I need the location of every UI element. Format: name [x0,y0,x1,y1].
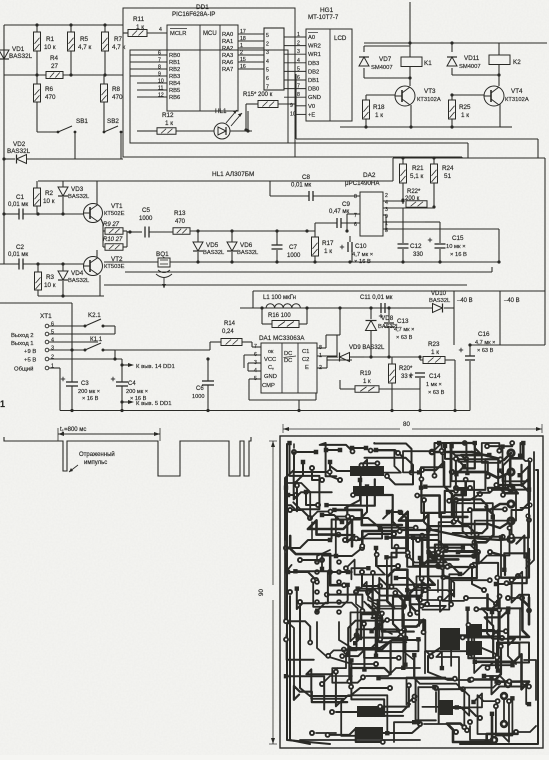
PCB pad [509,440,515,446]
PCB pad [377,583,383,589]
PCB pad [419,603,425,609]
svg-text:4,7 мк ×: 4,7 мк × [394,327,414,333]
svg-text:RB2: RB2 [169,67,180,73]
PCB pad [413,583,419,589]
svg-text:E: E [305,365,309,371]
PCB pad [307,640,313,646]
wire pin RA7 [238,68,264,70]
PCB square pad [460,490,464,494]
svg-text:200 мк ×: 200 мк × [126,389,148,395]
svg-text:C8: C8 [302,174,311,181]
PCB trace [366,668,420,676]
svg-text:10: 10 [290,111,296,117]
PCB trace [376,548,398,566]
PCB trace [425,631,506,673]
PCB pad [445,564,451,570]
wire to DD1 pin14 [122,364,128,366]
PCB square pad [320,567,324,571]
PCB trace [423,566,472,609]
PCB square pad [374,448,379,453]
PCB trace [453,708,476,716]
relay K2 [489,55,510,65]
PCB trace [330,571,348,573]
PCB pad [353,536,359,542]
PCB trace [503,700,505,720]
wire bottom section border [253,290,545,292]
PCB pad [448,601,454,607]
PCB square pad [324,503,328,507]
PCB pad [359,569,365,575]
svg-text:C2: C2 [16,244,25,251]
PCB pad [346,678,352,684]
svg-text:A0: A0 [308,35,315,41]
PCB square pad [412,720,416,724]
PCB pad [467,507,473,513]
PCB pad [401,627,407,633]
PCB pad [435,550,441,556]
PCB trace [289,596,291,700]
PCB trace [497,443,524,493]
PCB square pad [338,448,343,453]
svg-text:RA2: RA2 [222,46,233,52]
PCB square pad [506,606,510,610]
PCB trace [466,598,496,604]
PCB pad [502,506,508,512]
PCB trace [387,547,397,558]
svg-text:DC: DC [284,351,292,357]
svg-text:2: 2 [385,193,388,199]
PCB trace [404,640,414,676]
PCB square pad [366,566,370,570]
PCB trace [487,443,512,446]
svg-text:XT1: XT1 [40,313,52,320]
svg-text:R14: R14 [224,321,236,327]
capacitor C3 [61,378,65,380]
svg-text:330: 330 [413,252,424,258]
PCB pad [494,655,500,661]
PCB pad [506,534,515,543]
diode VD3 [58,187,68,196]
PCB pad [472,539,478,545]
PCB pad [490,736,498,744]
PCB pad [333,669,339,675]
PCB trace [356,592,364,610]
PCB trace [482,648,496,668]
PCB trace [322,517,348,569]
PCB trace [460,470,538,744]
wire pin RB1 [130,61,167,63]
PCB trace [300,606,310,696]
PCB trace [463,630,498,671]
svg-text:9: 9 [158,72,161,78]
svg-text:RB1: RB1 [169,60,180,66]
svg-text:R23: R23 [428,341,440,348]
svg-text:5,1 к: 5,1 к [410,173,424,180]
diode VD5 [193,242,203,251]
svg-text:SB2: SB2 [107,118,119,125]
PCB pad [460,635,466,641]
PCB square pad [378,526,383,531]
svg-text:C14: C14 [429,373,441,380]
wire DA1 pin5 [249,378,261,380]
svg-text:6: 6 [297,75,300,81]
svg-text:R5: R5 [80,36,89,43]
resistor R25 [452,94,484,96]
svg-text:27: 27 [51,63,59,70]
PCB pad [397,528,403,534]
svg-text:K2.1: K2.1 [88,312,101,319]
PCB pad [287,507,293,513]
PCB trace [300,739,420,741]
PCB pad [453,485,459,491]
svg-text:DA1 MC33063A: DA1 MC33063A [259,335,305,342]
svg-text:1 к: 1 к [431,349,439,356]
PCB pad [500,492,506,498]
wire XT1 pin6 [49,325,85,327]
wire mid ground rail [125,271,492,273]
PCB trace [407,678,446,705]
PCB pad [319,477,325,483]
PCB square pad [365,484,369,488]
PCB trace [290,510,310,518]
PCB pad [387,685,393,691]
svg-text:импульс: импульс [84,460,107,466]
svg-text:4,7 к: 4,7 к [78,44,92,51]
PCB trace [492,678,530,695]
PCB component fill [440,628,460,650]
PCB trace [524,660,536,700]
svg-text:GND: GND [308,95,321,101]
svg-text:0,24: 0,24 [222,329,234,335]
PCB trace [482,443,501,463]
PCB trace [387,620,431,656]
svg-text:2: 2 [240,50,243,56]
waveform pulse train [4,437,251,476]
PCB square pad [527,487,531,491]
PCB pad [446,563,452,569]
PCB trace [488,595,500,610]
PCB trace [387,538,435,613]
PCB pad [484,443,490,449]
PCB square pad [386,510,391,515]
svg-text:7: 7 [297,84,300,90]
PCB pad [395,450,401,456]
PCB trace [427,526,476,548]
svg-text:КТ3102А: КТ3102А [417,97,441,103]
PCB pad [419,476,425,482]
PCB pad [365,589,371,595]
PCB trace [358,560,387,600]
PCB pad [499,635,505,641]
wire mid top rail [38,180,393,182]
PCB trace [437,580,439,592]
svg-text:R6: R6 [45,86,54,93]
svg-text:6: 6 [158,51,161,57]
PCB trace [290,700,310,744]
svg-text:C2: C2 [302,357,309,363]
PCB trace [424,500,432,530]
PCB square pad [385,731,389,735]
wire supply rail [240,307,432,309]
PCB pad [474,532,480,538]
PCB pad [467,485,473,491]
PCB pad [496,448,502,454]
PCB trace [286,621,310,642]
wire K2 bottom [452,74,499,76]
svg-text:R9 27: R9 27 [103,222,120,228]
PCB pad [417,721,423,727]
wire lower left rail [38,295,104,297]
svg-text:12: 12 [158,93,164,99]
PCB pad [336,599,342,605]
svg-text:VD6: VD6 [240,242,253,249]
PCB trace [311,522,313,540]
svg-text:RA3: RA3 [222,53,233,59]
svg-text:0,47 мк: 0,47 мк [329,209,349,215]
PCB pad [506,467,515,476]
PCB trace [442,567,464,601]
svg-text:WR1: WR1 [308,52,321,58]
transistor VT2 [84,257,103,276]
svg-text:HG1: HG1 [320,7,334,14]
wire top-left rail [3,25,5,264]
PCB square pad [320,513,325,518]
wire right top vertical [409,2,411,46]
PCB trace [516,726,536,732]
svg-text:C13: C13 [397,318,409,325]
svg-text:Выход 2: Выход 2 [11,333,34,339]
svg-text:RA7: RA7 [222,67,233,73]
PCB square pad [506,608,510,612]
PCB square pad [494,582,499,587]
PCB trace [352,447,366,449]
svg-text:DD1: DD1 [196,4,209,11]
PCB trace [520,496,529,521]
PCB square pad [465,471,469,475]
PCB trace [306,492,318,505]
PCB pad [506,698,512,704]
svg-text:R12: R12 [162,112,174,119]
PCB pad [453,516,459,522]
PCB square pad [398,510,403,515]
diode VD4 [58,271,68,280]
svg-text:VT1: VT1 [111,203,123,210]
PCB trace [294,451,316,453]
PCB pad [350,492,356,498]
PCB pad [452,676,458,682]
PCB trace [362,531,399,546]
PCB pad [449,589,455,595]
PCB trace [361,451,401,473]
PCB trace [403,443,442,472]
PCB trace [420,592,452,600]
PCB pad [329,709,335,715]
svg-text:L1 100 мкГн: L1 100 мкГн [263,295,296,301]
PCB trace [290,443,320,509]
svg-text:DB1: DB1 [308,78,319,84]
PCB trace [484,676,508,684]
PCB square pad [426,550,430,554]
svg-text:C11 0,01 мк: C11 0,01 мк [360,295,393,301]
PCB trace [317,603,357,638]
PCB square pad [315,609,319,613]
PCB pad [377,704,383,710]
PCB pad [473,606,479,612]
svg-text:R19: R19 [360,371,372,377]
PCB square pad [443,444,447,448]
PCB pad [485,473,491,479]
PCB pad [497,593,503,599]
PCB pad [293,481,299,487]
wire DA2 pin3 [383,207,434,209]
wire mid rail 2 [104,284,467,286]
wire DA2 pin9 [383,214,386,216]
PCB pad [509,577,515,583]
PCB trace [435,692,437,712]
PCB pad [361,621,367,627]
PCB pad [500,720,508,728]
PCB trace [361,614,376,656]
svg-text:470: 470 [175,219,186,225]
svg-text:RB5: RB5 [169,88,180,94]
PCB pad [405,553,411,559]
PCB pad [421,629,427,635]
svg-text:BAS32L: BAS32L [7,148,31,155]
PCB pad [506,499,515,508]
svg-text:× 16 В: × 16 В [82,396,99,402]
wire HL1 junction [246,129,249,132]
PCB pad [314,599,320,605]
resistor R3 [35,272,42,290]
PCB pad [353,589,359,595]
PCB pad [417,597,423,603]
PCB pad [314,609,320,615]
PCB pad [336,579,342,585]
PCB trace [352,518,380,528]
wire MCLR pin4 [123,32,128,34]
wire XT1 pin3 [49,349,85,351]
svg-text:6: 6 [266,76,269,82]
wire K1 bottom [364,77,410,79]
PCB pad [341,647,347,653]
PCB pad [407,611,413,617]
wire pin RB4 [137,82,167,84]
PCB square pad [353,641,357,645]
PCB trace [288,494,296,496]
PCB pad [368,448,374,454]
svg-text:K2: K2 [513,59,521,66]
PCB trace [332,479,374,542]
svg-text:VD3: VD3 [71,186,84,193]
wire DA1 pin2 [317,367,327,369]
PCB trace [317,550,330,562]
PCB trace [482,630,502,638]
diode VD7 [364,45,410,47]
PCB trace [294,472,332,499]
PCB pad [435,563,441,569]
svg-text:6: 6 [354,222,357,228]
PCB trace [351,660,403,716]
PCB pad [336,532,342,538]
PCB pad [509,533,515,539]
PCB pad [421,497,427,503]
svg-text:DB3: DB3 [308,61,319,67]
PCB trace [456,443,483,455]
wire pin RA3 [238,54,264,56]
svg-text:1000: 1000 [287,253,301,259]
PCB pad [411,697,417,703]
PCB trace [372,618,406,638]
PCB pad [327,469,333,475]
svg-text:КТ3102А: КТ3102А [505,97,529,103]
PCB trace [509,681,529,704]
PCB trace [460,635,466,637]
PCB square pad [405,588,409,592]
PCB trace [452,472,511,478]
PCB trace [461,455,489,473]
PCB component fill [353,486,384,496]
PCB pad [325,732,331,738]
PCB trace [328,629,403,668]
svg-text:VD11: VD11 [464,55,480,62]
PCB pad [313,577,319,583]
PCB pad [283,637,289,643]
capacitor C10 [340,246,344,248]
PCB pad [515,573,521,579]
PCB pad [405,550,411,556]
PCB square pad [496,600,500,604]
PCB pad [453,729,459,735]
PCB trace [316,732,336,734]
svg-text:μPC1490HA: μPC1490HA [345,180,380,187]
PCB pad [451,519,457,525]
PCB trace [432,530,511,540]
PCB square pad [510,696,514,700]
PCB square pad [432,685,436,689]
svg-text:+9 В: +9 В [24,349,36,355]
PCB pad [475,549,481,555]
svg-text:0,01 мк: 0,01 мк [8,202,28,208]
PCB square pad [314,450,319,455]
svg-text:80: 80 [403,421,410,428]
PCB pad [336,589,342,595]
PCB trace [330,466,350,471]
PCB trace [519,608,521,640]
PCB pad [360,674,366,680]
PCB trace [368,592,404,606]
PCB square pad [454,472,458,476]
PCB square pad [465,607,469,611]
PCB pad [433,685,439,691]
PCB pad [504,580,510,586]
PCB pad [294,483,300,489]
svg-text:C6: C6 [196,386,204,392]
PCB pad [525,513,530,518]
PCB pad [359,543,365,549]
svg-text:16: 16 [240,64,246,70]
PCB pad [450,519,456,525]
svg-text:ок: ок [268,349,274,355]
PCB trace [453,499,488,533]
wire switch mode out [327,359,352,361]
wire XT1 pin5 [49,333,115,335]
PCB pad [314,569,320,575]
frame box inner [130,50,288,143]
PCB trace [451,580,490,604]
PCB trace [462,521,511,528]
resistor R18 [366,94,395,96]
svg-text:5: 5 [266,33,269,39]
